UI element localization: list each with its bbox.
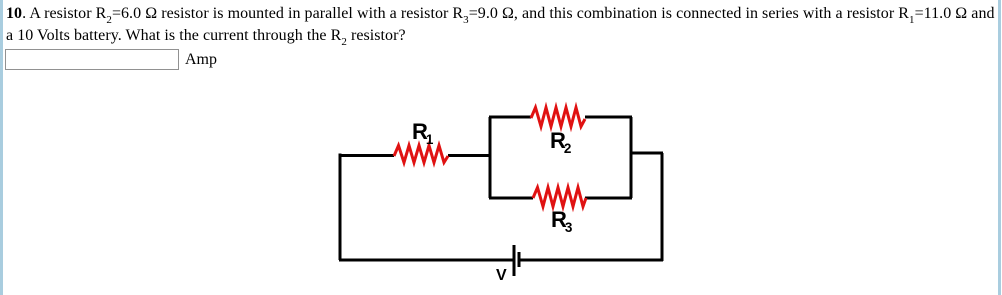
Amp unit label	[185, 50, 217, 70]
right page border	[998, 0, 1001, 295]
wire: bottom horizontal left segment to battery	[339, 259, 514, 262]
resistor R2 zigzag	[531, 108, 585, 127]
question text	[6, 3, 995, 47]
wire: top left horizontal to R1	[339, 154, 394, 157]
svg-text:R2: R2	[550, 128, 571, 156]
wire: middle connector box to right	[631, 152, 663, 155]
wire: parallel box right vertical	[630, 117, 633, 198]
svg-text:R3: R3	[551, 207, 573, 235]
wire: box bottom to R3	[489, 197, 533, 200]
wire: R2 to box right	[585, 116, 632, 119]
battery V long plate	[513, 245, 516, 276]
wire: R3 to box right	[585, 197, 632, 200]
resistor R1 zigzag	[394, 146, 448, 163]
wire: outer left vertical	[339, 154, 342, 261]
wire: box top to R2	[489, 116, 531, 119]
resistor R3 zigzag	[533, 188, 586, 207]
svg-text:R1: R1	[412, 119, 434, 147]
wire: R1 to parallel box	[448, 154, 490, 157]
battery V short plate	[518, 252, 521, 267]
left page border	[0, 0, 3, 295]
wire: bottom horizontal right segment from battery	[519, 259, 663, 262]
answer input box	[5, 49, 179, 70]
wire: parallel box left vertical	[489, 117, 492, 198]
svg-text:V: V	[496, 267, 507, 284]
wire: outer right vertical	[661, 153, 664, 261]
circuit schematic	[325, 95, 680, 295]
